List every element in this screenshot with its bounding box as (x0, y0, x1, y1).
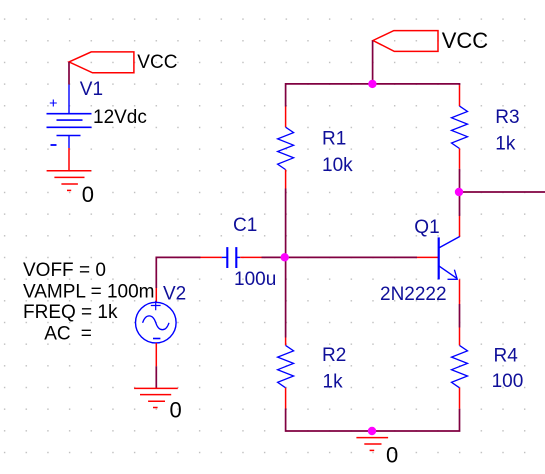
capacitor C1 (201, 247, 262, 268)
svg-text:1k: 1k (495, 134, 516, 155)
wire C1 to base node and Q1 base (262, 256, 418, 258)
svg-text:=: = (81, 323, 92, 344)
R3 pin 1 (top) (459, 85, 461, 106)
wire base node to R2 top (285, 257, 287, 337)
svg-text:C1: C1 (233, 215, 257, 236)
V1 battery plate long lower (47, 126, 92, 128)
C1 left plate (226, 247, 228, 268)
ground bar 2 (54, 176, 84, 178)
power symbol VCC (left, net VCC for V1) (69, 52, 134, 73)
R1 zigzag body (278, 127, 294, 169)
svg-text:VCC: VCC (137, 52, 177, 73)
V1 plus marking (50, 100, 57, 107)
svg-text:R3: R3 (495, 107, 519, 128)
V2 plus marking (151, 301, 161, 310)
ground bar 3 (148, 400, 165, 402)
C1 pin 1 (left) (201, 256, 222, 258)
ground bar 1 (47, 170, 92, 172)
ground bar 1 (134, 387, 178, 389)
V1 pin 1 (+) (68, 85, 70, 114)
svg-text:AC: AC (44, 323, 70, 344)
wire R3 bottom through collector node (459, 169, 461, 216)
ground bar 4 (370, 449, 375, 451)
svg-text:0: 0 (82, 182, 94, 207)
power symbol VCC (top, net VCC for rail) (373, 31, 438, 52)
junction node at VCC top rail (368, 80, 376, 88)
R3 zigzag body (452, 106, 468, 148)
ground bar 3 (61, 183, 78, 185)
svg-text:V1: V1 (80, 79, 103, 100)
R4 pin 1 (top) (459, 328, 461, 346)
source V1 (DC battery) (47, 85, 92, 149)
wire V2 top to C1 (input node) (156, 257, 200, 288)
svg-text:100u: 100u (234, 269, 276, 290)
R1 pin 2 (bottom) (285, 170, 287, 189)
junction node at C1 / R1 / R2 / Q1 base (281, 253, 289, 261)
svg-text:VOFF = 0: VOFF = 0 (23, 260, 106, 281)
C1 pin 2 (right) (236, 256, 240, 258)
Q1 emitter arrowhead (454, 270, 457, 279)
svg-text:0: 0 (170, 398, 182, 423)
R2 pin 2 (bottom) (285, 388, 287, 409)
svg-text:2N2222: 2N2222 (380, 284, 447, 305)
resistor R4 (452, 328, 468, 409)
R3 pin 2 (bottom) (459, 149, 461, 169)
transistor Q1 (NPN 2N2222) (417, 216, 460, 304)
svg-text:100: 100 (492, 371, 524, 392)
junction node at bottom rail ground (368, 427, 376, 435)
wire emitter to R4 (459, 304, 461, 328)
Q1 collector stroke (439, 237, 460, 249)
svg-text:Q1: Q1 (414, 217, 439, 238)
R4 zigzag body (452, 345, 468, 387)
Q1 base pin (417, 256, 439, 258)
wire VCC arrow to V1 plus terminal (68, 62, 70, 85)
ground bar 4 (153, 407, 158, 409)
V1 battery plate long upper (47, 113, 92, 115)
svg-text:VAMPL = 100m: VAMPL = 100m (23, 282, 154, 303)
V2 pin 2 (bottom) (155, 343, 157, 366)
wire top VCC rail (286, 84, 460, 107)
R1 pin 1 (top) (285, 107, 287, 128)
svg-text:R2: R2 (322, 345, 346, 366)
resistor R3 (452, 85, 468, 169)
V1 pin 2 (-) (68, 136, 70, 149)
R4 pin 2 (bottom) (459, 388, 461, 409)
Q1 emitter stroke (439, 266, 458, 279)
V1 battery plate short upper (57, 119, 83, 121)
R2 pin 1 (top) (285, 338, 287, 346)
svg-text:10k: 10k (322, 155, 353, 176)
Q1 base bar (438, 237, 440, 279)
svg-text:R4: R4 (494, 346, 519, 367)
V1 minus marking (51, 144, 57, 146)
svg-text:R1: R1 (322, 129, 346, 150)
svg-text:V2: V2 (163, 284, 186, 305)
ground 0 (under V1) (47, 148, 92, 190)
wire V2 bottom to ground (155, 366, 157, 388)
svg-text:0: 0 (386, 442, 398, 467)
Q1 emitter pin (459, 279, 461, 304)
wire VCC arrow to top rail (372, 41, 374, 84)
wire bottom ground rail (286, 409, 460, 432)
ground pin stub (68, 148, 70, 171)
ground bar 2 (356, 437, 388, 439)
junction node at collector / output (455, 188, 463, 196)
ground 0 (under V2) (134, 388, 178, 407)
svg-text:FREQ = 1k: FREQ = 1k (23, 302, 118, 323)
Q1 collector pin (459, 216, 461, 237)
R2 zigzag body (278, 345, 294, 387)
resistor R2 (278, 338, 294, 409)
svg-text:VCC: VCC (442, 28, 489, 53)
C1 right plate (235, 247, 237, 268)
ground bar 2 (140, 394, 171, 396)
wire R1 bottom to base node (285, 189, 287, 258)
svg-text:12Vdc: 12Vdc (93, 107, 147, 128)
ground bar 3 (364, 443, 381, 445)
resistor R1 (278, 107, 294, 189)
V2 circle body (136, 302, 177, 343)
ground bar 4 (67, 189, 71, 191)
source V2 (VSIN sine source) (136, 288, 177, 366)
V2 pin 1 (top) (155, 288, 157, 303)
wire output (collector node to right edge) (460, 191, 545, 193)
svg-text:1k: 1k (323, 372, 344, 393)
V1 battery plate short lower (57, 135, 81, 137)
V2 minus marking (153, 338, 160, 340)
V2 sine wave (143, 316, 169, 330)
ground 0 (bottom rail) (356, 438, 388, 451)
